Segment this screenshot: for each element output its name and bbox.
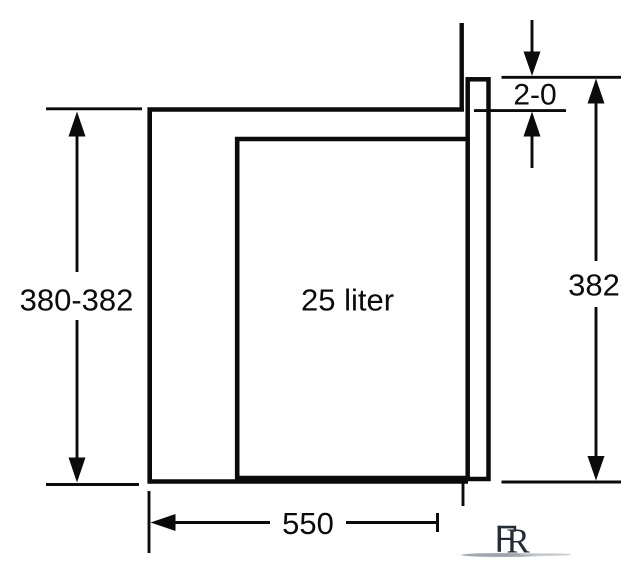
2-0 up arrow shaft xyxy=(531,134,534,168)
arrowhead down (382 bottom) xyxy=(588,456,605,481)
arrowhead up (380-382 top) xyxy=(69,112,86,137)
svg-text:550: 550 xyxy=(282,506,334,541)
2-0 down arrow shaft xyxy=(531,20,534,54)
550 left shaft xyxy=(173,521,270,524)
watermark shadow tail xyxy=(462,553,538,557)
550 left extension line xyxy=(148,491,151,553)
svg-text:2-0: 2-0 xyxy=(513,79,556,112)
top-left extension line xyxy=(46,107,142,110)
svg-text:25 liter: 25 liter xyxy=(301,282,394,317)
550 right shaft xyxy=(346,521,437,524)
watermark letter F middle bar xyxy=(499,538,512,540)
svg-text:382: 382 xyxy=(568,268,620,303)
550 left arrowhead xyxy=(151,514,176,531)
550 right extension line xyxy=(462,483,465,506)
bottom-left extension line xyxy=(46,483,139,486)
dimension line 380-382 upper shaft xyxy=(76,133,79,272)
dimension line 380-382 lower shaft xyxy=(76,320,79,462)
wall line above niche xyxy=(460,23,464,111)
watermark shadow xyxy=(453,552,557,557)
niche outline (top, left, bottom edges) xyxy=(150,110,468,482)
watermark letter F stem xyxy=(498,526,501,552)
2-0 top reference line xyxy=(502,76,622,79)
svg-text:380-382: 380-382 xyxy=(20,282,134,317)
svg-text:R: R xyxy=(506,522,530,561)
dimension line 382 upper shaft xyxy=(595,100,598,261)
382 bottom reference line xyxy=(502,481,622,484)
550 end tick xyxy=(436,513,439,532)
appliance door front panel xyxy=(468,79,489,479)
2-0 up arrowhead xyxy=(524,112,541,137)
appliance body (25 liter cavity) xyxy=(237,139,466,478)
dimension line 382 lower shaft xyxy=(595,307,598,460)
arrowhead up (382 top) xyxy=(588,79,605,104)
2-0 down arrowhead xyxy=(524,52,541,77)
arrowhead down (380-382 bottom) xyxy=(69,458,86,483)
2-0 bottom reference line xyxy=(474,109,566,112)
watermark letter F top bar with hook xyxy=(498,526,517,532)
